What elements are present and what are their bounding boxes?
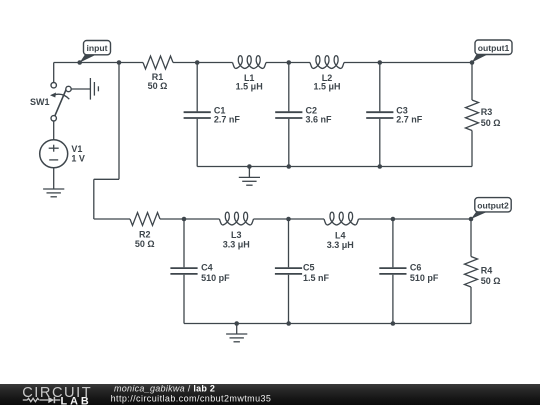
svg-text:LAB: LAB xyxy=(61,396,92,405)
svg-text:http://circuitlab.com/cnbut2mw: http://circuitlab.com/cnbut2mwtmu35 xyxy=(111,394,272,404)
svg-text:monica_gabikwa / lab 2: monica_gabikwa / lab 2 xyxy=(114,384,215,394)
